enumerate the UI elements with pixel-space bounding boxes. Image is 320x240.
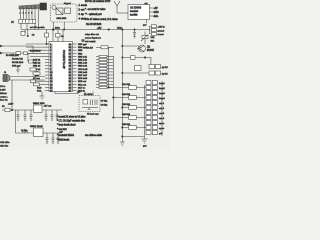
- svg-text:X1 4MHz: X1 4MHz: [84, 94, 93, 96]
- svg-text:osc: osc: [77, 92, 80, 94]
- svg-text:RB3 led1: RB3 led1: [78, 56, 88, 58]
- wire J4 to +5V rail: [21, 23, 45, 29]
- svg-text:RC1: RC1: [37, 91, 42, 93]
- svg-text:C8 22p: C8 22p: [101, 105, 109, 107]
- fuse F1: [2, 106, 10, 112]
- svg-text:X1 load caps: X1 load caps: [87, 114, 99, 116]
- svg-text:aux 1: aux 1: [159, 103, 165, 105]
- svg-text:R23 330: R23 330: [122, 104, 131, 106]
- svg-text:** - optional part: ** - optional part: [85, 13, 102, 16]
- svg-text:DTR gnd: DTR gnd: [12, 66, 21, 68]
- IC U2 microcontroller: [49, 41, 85, 92]
- svg-text:aux 4: aux 4: [159, 118, 165, 120]
- svg-text:+5V out: +5V out: [44, 105, 52, 108]
- svg-text:+12V: +12V: [8, 104, 14, 106]
- svg-text:RD7 led7: RD7 led7: [78, 75, 88, 77]
- svg-text:100n: 100n: [55, 27, 61, 29]
- svg-text:R21 330: R21 330: [122, 84, 131, 86]
- DC jack J1: [3, 75, 45, 82]
- connector J4: [11, 19, 36, 24]
- svg-text:1- mode: 1- mode: [79, 5, 88, 7]
- svg-text:lamp2: lamp2: [159, 88, 166, 90]
- svg-text:3- up: 3- up: [79, 14, 85, 16]
- svg-text:fuse 1A: fuse 1A: [0, 99, 8, 102]
- svg-text:* - see text for value: * - see text for value: [85, 8, 106, 11]
- ground serial: [16, 67, 20, 74]
- svg-text:C10 100u: C10 100u: [0, 142, 10, 144]
- svg-text:RC7 rx: RC7 rx: [78, 86, 86, 89]
- svg-text:receiver: receiver: [130, 10, 138, 13]
- resistor R6: [29, 60, 41, 75]
- svg-text:* twist leads: * twist leads: [57, 139, 70, 142]
- jack labels: [0, 86, 8, 99]
- svg-text:aux 2: aux 2: [159, 108, 165, 110]
- wire sensor bus: [122, 30, 152, 137]
- svg-text:RD4 out: RD4 out: [78, 83, 86, 86]
- net labels below rail: [85, 33, 113, 50]
- wire to Q1 base: [122, 45, 139, 48]
- regulator REG2: [30, 126, 43, 137]
- transistor Q1: [137, 45, 155, 52]
- svg-text:+9V: +9V: [59, 131, 63, 133]
- wires U2 bottom: [55, 92, 93, 96]
- svg-text:1: 1: [20, 13, 21, 15]
- caps rail2: [46, 133, 60, 144]
- svg-text:PIC16F877A-I/P: PIC16F877A-I/P: [62, 50, 66, 69]
- svg-text:RB2 led2: RB2 led2: [78, 60, 88, 62]
- svg-text:rly NO: rly NO: [162, 66, 168, 69]
- svg-text:rly NC: rly NC: [162, 73, 168, 76]
- node +5V rail: [22, 27, 150, 31]
- resistor R3 on serial wire: [16, 51, 41, 55]
- svg-text:RD5 out: RD5 out: [78, 80, 86, 83]
- LED branch rows: [109, 84, 146, 136]
- svg-text:NOTE: all resistors 1/4W: NOTE: all resistors 1/4W: [85, 0, 111, 3]
- capacitor C2: [56, 34, 65, 38]
- svg-text:relay drive out: relay drive out: [85, 33, 99, 36]
- svg-text:4: 4: [28, 13, 29, 15]
- decoupling C1: [21, 30, 35, 37]
- wire bundle from ribbon: [20, 7, 38, 30]
- svg-text:RE0 k2: RE0 k2: [33, 63, 41, 65]
- annotation notes: [57, 116, 103, 142]
- ground main bus: [120, 137, 125, 147]
- svg-text:RB1 led3: RB1 led3: [78, 63, 88, 65]
- svg-text:ant: ant: [145, 2, 148, 5]
- svg-text:3: 3: [26, 13, 27, 15]
- svg-text:lamp3: lamp3: [159, 93, 166, 95]
- U2 left pin wires and labels: [26, 44, 45, 93]
- svg-text:2- set: 2- set: [79, 9, 85, 12]
- svg-text:R9 4k7: R9 4k7: [86, 48, 94, 50]
- dashed enclosure remote head: [50, 3, 77, 30]
- bottom left note: [0, 99, 10, 148]
- svg-text:VSS led6: VSS led6: [78, 72, 88, 74]
- svg-text:R24 330: R24 330: [122, 114, 131, 116]
- svg-text:RC0: RC0: [37, 87, 42, 89]
- svg-text:+12V in: +12V in: [158, 27, 166, 29]
- wire jack to regulator rail: [4, 72, 12, 110]
- legend list: [79, 5, 88, 21]
- svg-text:sensor input net: sensor input net: [85, 37, 101, 40]
- trimpot VR1: [141, 32, 155, 45]
- dashed oscillator box X1: [79, 94, 108, 116]
- svg-text:5: 5: [31, 13, 32, 15]
- +12V input rail: [2, 104, 62, 111]
- svg-text:RB7 pgd: RB7 pgd: [78, 44, 87, 46]
- svg-text:RB0 led4: RB0 led4: [78, 66, 88, 68]
- svg-text:lamp1: lamp1: [159, 83, 166, 85]
- svg-text:GND: GND: [154, 12, 159, 14]
- svg-text:* heatsink REG1: * heatsink REG1: [57, 134, 75, 137]
- svg-text:DC in: DC in: [0, 86, 6, 88]
- antenna ANT1: [114, 1, 128, 13]
- svg-text:center +: center +: [0, 96, 8, 99]
- output connector stack: [146, 81, 166, 137]
- wire bus to drivers: [96, 56, 113, 87]
- svg-text:R5 22k RxD: R5 22k RxD: [12, 62, 24, 64]
- svg-text:keypad: keypad: [64, 3, 72, 5]
- U2 left pins: [45, 44, 49, 91]
- svg-text:500mA: 500mA: [0, 92, 7, 95]
- svg-text:SW1-SW4: SW1-SW4: [57, 18, 68, 20]
- U2 right pins: [73, 44, 77, 91]
- svg-text:D9 1N4148: D9 1N4148: [30, 51, 41, 53]
- inductor L2: [21, 130, 63, 134]
- serial interface labels: [12, 59, 24, 68]
- svg-text:RB6 pgc: RB6 pgc: [78, 47, 87, 49]
- svg-text:RE1 k3: RE1 k3: [33, 66, 41, 68]
- +9V rail2: [16, 132, 63, 134]
- filter caps rail1: [17, 110, 59, 121]
- svg-text:RD6 led8: RD6 led8: [78, 78, 88, 80]
- svg-text:C11 10u: C11 10u: [0, 146, 9, 148]
- wire cathode return: [144, 85, 146, 139]
- serial port wires: [0, 45, 33, 62]
- svg-text:spare: spare: [159, 127, 165, 130]
- notes text block: [85, 0, 119, 26]
- svg-text:U1 RX433: U1 RX433: [130, 7, 142, 10]
- wires U2 top to rail: [53, 30, 63, 42]
- resistor network R10-R17: [99, 55, 107, 88]
- svg-text:spare: spare: [159, 122, 165, 125]
- capacitor C12 decoupling: [133, 29, 136, 38]
- ribbon cable to display: [19, 3, 47, 10]
- wire rail1 to rail2: [15, 110, 17, 133]
- svg-text:9-12V: 9-12V: [0, 90, 6, 92]
- svg-text:D1-D8 1N4148: D1-D8 1N4148: [86, 24, 102, 26]
- svg-text:aux 3: aux 3: [159, 113, 165, 115]
- receiver module U1: [128, 5, 150, 20]
- svg-text:* C7, C8 22pF ceramic disc: * C7, C8 22pF ceramic disc: [57, 120, 86, 123]
- svg-text:* keep leads short: * keep leads short: [57, 124, 76, 127]
- svg-text:REG2 78L09: REG2 78L09: [30, 126, 43, 128]
- U2 pin numbers: [50, 44, 72, 93]
- svg-text:R25 330: R25 330: [122, 124, 131, 126]
- vertical bus lines: [108, 47, 123, 137]
- ground for LED stack: [142, 139, 148, 148]
- connector rows top right: [150, 25, 166, 36]
- svg-text:module: module: [130, 15, 138, 17]
- ground U2: [40, 92, 45, 101]
- U2 right pin labels with series resistors: [78, 44, 88, 93]
- bundle pin digits: [20, 13, 33, 15]
- svg-text:C7 22p: C7 22p: [101, 101, 109, 103]
- svg-text:sensor: sensor: [158, 33, 165, 36]
- svg-text:L2 10u: L2 10u: [21, 130, 28, 132]
- svg-text:R4 10k TxD: R4 10k TxD: [12, 59, 23, 61]
- U1 pin wires: [143, 2, 159, 27]
- svg-text:data: data: [154, 15, 159, 18]
- svg-text:R22 330: R22 330: [122, 94, 131, 96]
- svg-text:+5V: +5V: [154, 8, 159, 10]
- regulator REG1: [33, 103, 51, 113]
- svg-text:2: 2: [23, 13, 24, 15]
- resistor R1 reset pull-up: [45, 30, 49, 45]
- svg-text:gnd: gnd: [143, 25, 146, 27]
- svg-text:to LCD module: to LCD module: [30, 26, 45, 29]
- svg-text:aux supply: aux supply: [85, 41, 96, 43]
- svg-text:C in uF unless noted, R in ohm: C in uF unless noted, R in ohms: [85, 18, 119, 21]
- svg-text:VDD led5: VDD led5: [78, 69, 88, 71]
- svg-text:ground: ground: [158, 29, 165, 32]
- svg-text:BC547: BC547: [147, 50, 155, 52]
- relay K1: [122, 65, 168, 76]
- svg-text:use ribbon cable: use ribbon cable: [85, 134, 103, 137]
- svg-text:+5V: +5V: [97, 27, 102, 30]
- svg-text:RA5 k1: RA5 k1: [33, 59, 41, 62]
- svg-text:lamp4: lamp4: [159, 98, 166, 100]
- svg-text:* mount X1 close to U2 pins: * mount X1 close to U2 pins: [57, 116, 86, 119]
